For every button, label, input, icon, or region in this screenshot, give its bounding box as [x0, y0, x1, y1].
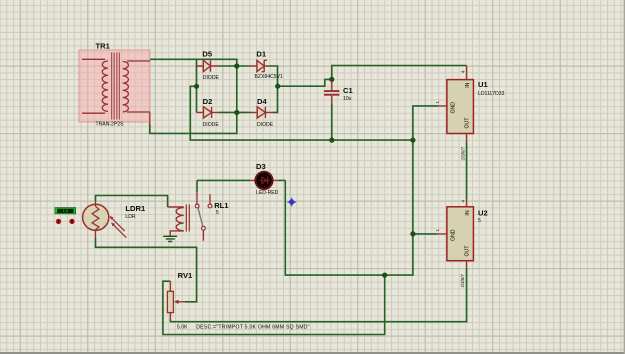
svg-text:D4: D4: [257, 97, 267, 106]
svg-text:DIODE: DIODE: [203, 75, 220, 81]
svg-text:LDR: LDR: [125, 214, 136, 220]
svg-text:C1: C1: [343, 86, 353, 95]
svg-text:RV1: RV1: [178, 271, 193, 280]
svg-text:DIODE: DIODE: [257, 122, 274, 128]
svg-text:TRAN-2P2S: TRAN-2P2S: [96, 121, 125, 127]
svg-text:2/3/6/7: 2/3/6/7: [460, 274, 465, 288]
svg-text:RL1: RL1: [214, 201, 229, 210]
svg-text:LED-RED: LED-RED: [256, 190, 279, 196]
svg-text:5: 5: [478, 218, 481, 224]
svg-text:LD1117D33: LD1117D33: [478, 91, 505, 97]
svg-text:D2: D2: [203, 97, 213, 106]
svg-text:TR1: TR1: [96, 42, 111, 51]
svg-text:IN: IN: [465, 82, 471, 87]
svg-text:D5: D5: [202, 50, 212, 59]
svg-text:OUT: OUT: [464, 117, 470, 129]
svg-text:D3: D3: [256, 162, 266, 171]
svg-text:GND: GND: [451, 229, 457, 241]
svg-text:5: 5: [216, 210, 219, 216]
svg-text:U1: U1: [478, 80, 488, 89]
svg-text:2/3/6/7: 2/3/6/7: [461, 147, 466, 161]
svg-text:DIODE: DIODE: [203, 122, 220, 128]
svg-text:U2: U2: [478, 209, 488, 218]
svg-text:5.0K: 5.0K: [177, 325, 188, 331]
svg-text:LDR1: LDR1: [125, 204, 146, 213]
svg-text:DESC:="TRIMPOT 5.0K OHM 6MM SQ: DESC:="TRIMPOT 5.0K OHM 6MM SQ SMD": [196, 325, 310, 331]
svg-text:10u: 10u: [343, 96, 352, 102]
svg-text:BZX84C5V1: BZX84C5V1: [255, 74, 283, 80]
svg-text:D1: D1: [256, 50, 266, 59]
svg-text:1.0: 1.0: [63, 209, 68, 213]
svg-text:IN: IN: [465, 210, 471, 215]
svg-text:OUT: OUT: [464, 245, 470, 257]
svg-text:GND: GND: [451, 102, 457, 114]
